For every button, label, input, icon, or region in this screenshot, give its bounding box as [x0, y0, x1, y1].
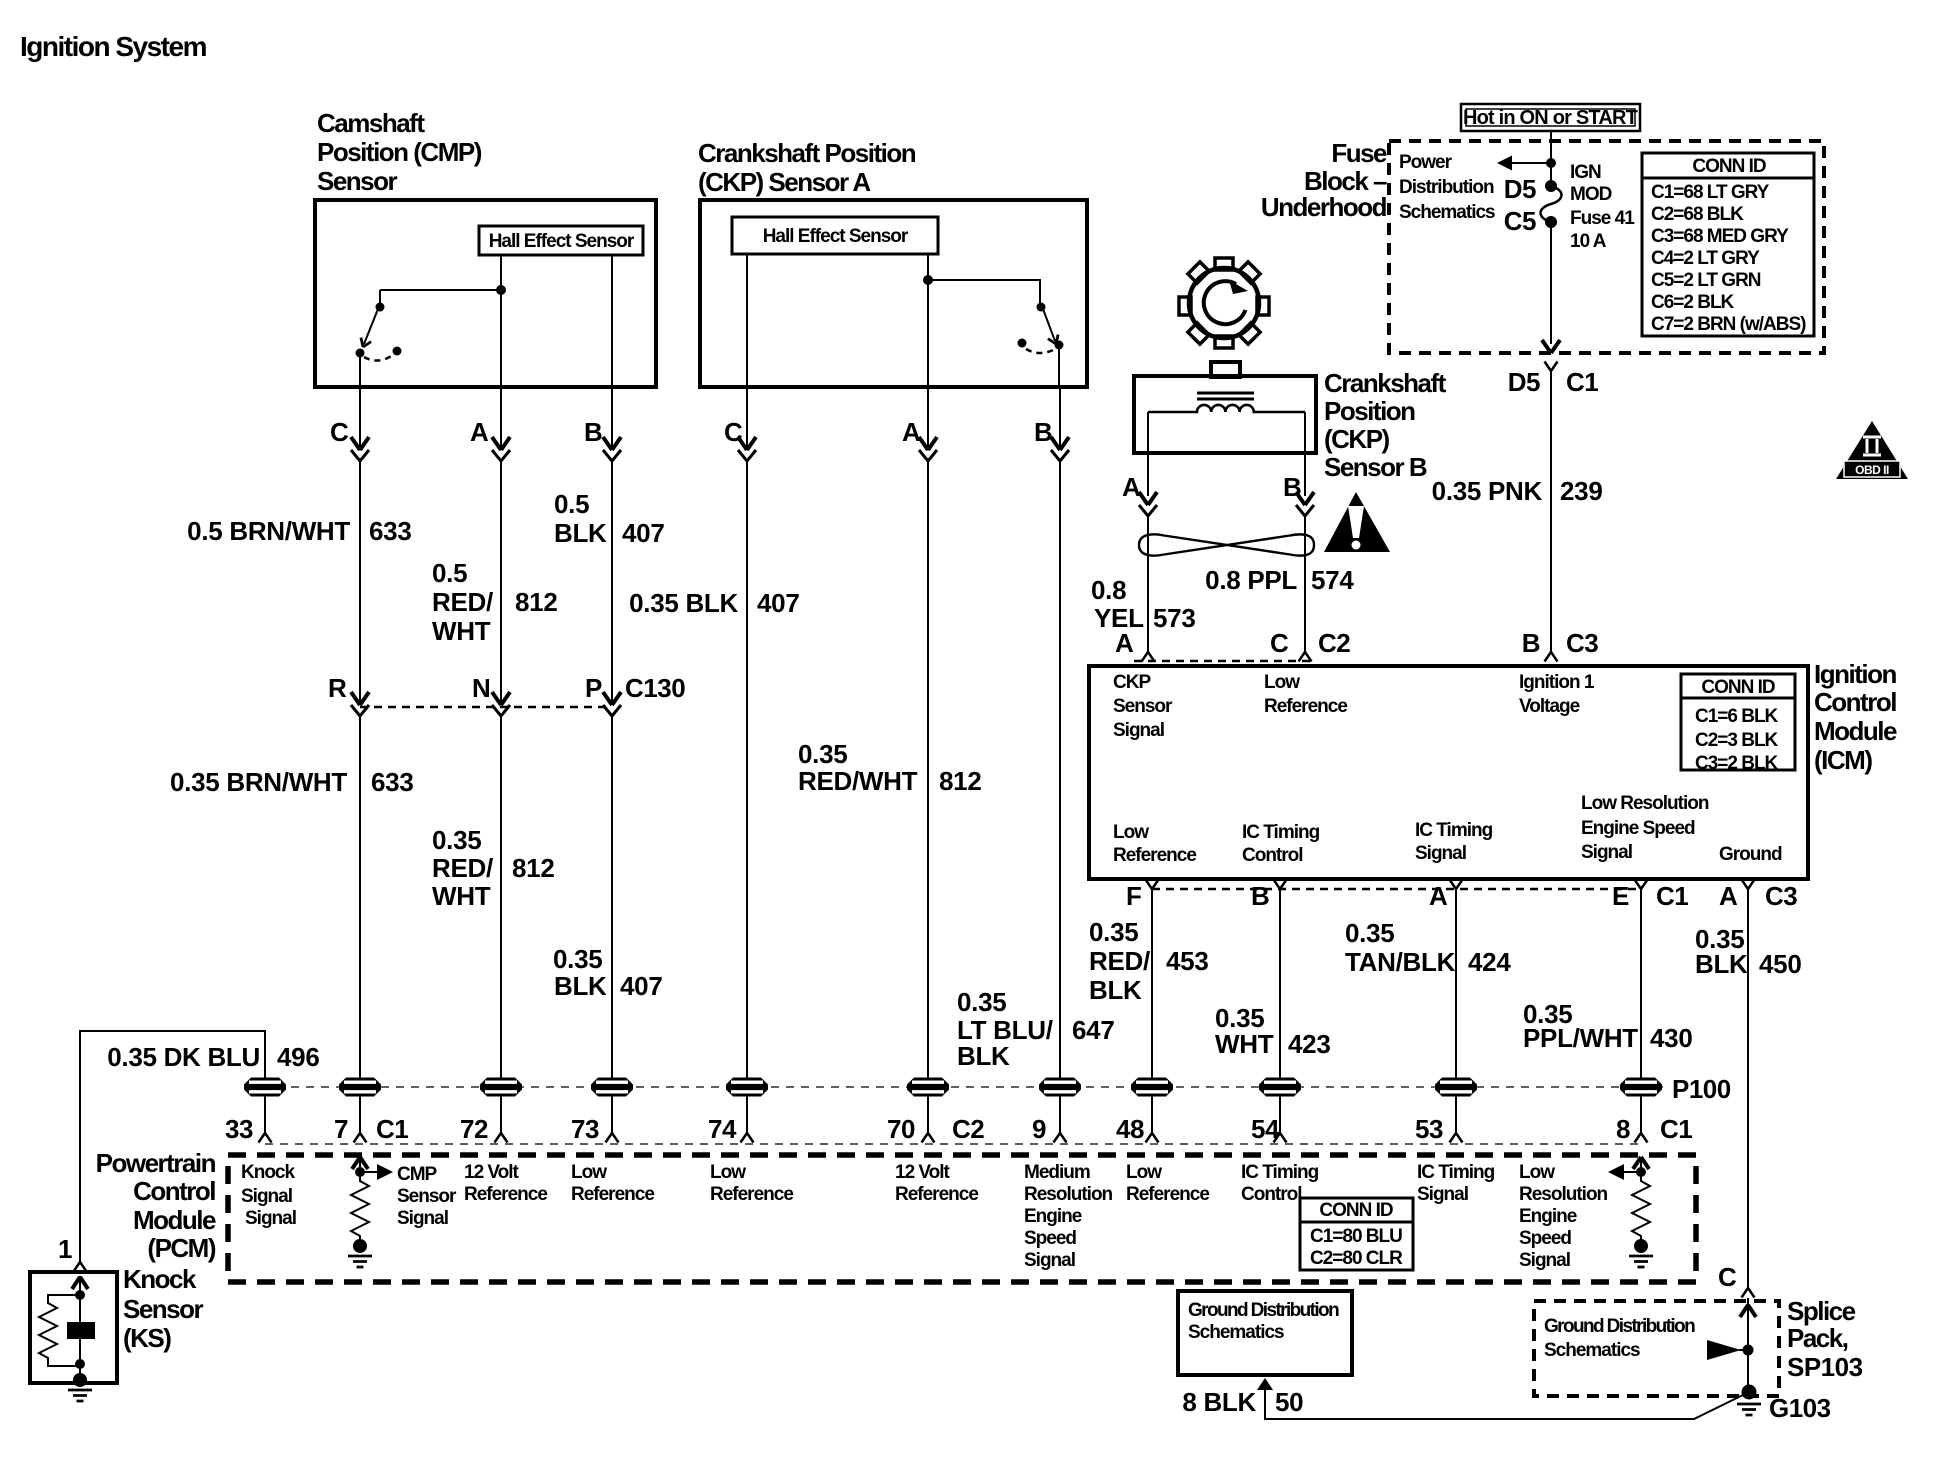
svg-text:Resolution: Resolution [1024, 1184, 1113, 1205]
wire fuse to ICM (239 PNK) [1550, 222, 1552, 344]
svg-text:OBD II: OBD II [1855, 463, 1889, 477]
8 BLK 50 ground lead [1257, 1378, 1273, 1390]
svg-text:Schematics: Schematics [1544, 1340, 1640, 1361]
svg-text:Low: Low [1126, 1162, 1162, 1183]
svg-text:WHT: WHT [432, 616, 491, 646]
P100 grommet pin 73 wire [591, 1078, 633, 1097]
svg-text:Control: Control [1814, 687, 1896, 717]
svg-text:424: 424 [1468, 947, 1511, 977]
svg-text:C130: C130 [625, 673, 685, 703]
svg-text:239: 239 [1560, 476, 1602, 506]
wire CKP-B A (573 YEL) [1147, 412, 1149, 496]
svg-text:54: 54 [1251, 1114, 1280, 1144]
CKP sensor B body [1211, 362, 1240, 377]
svg-text:CONN ID: CONN ID [1319, 1200, 1393, 1221]
svg-text:IC Timing: IC Timing [1241, 1162, 1319, 1183]
wire 496 DK BLU (KS to PCM 33) [74, 1262, 87, 1272]
svg-text:TAN/BLK: TAN/BLK [1345, 947, 1456, 977]
svg-text:Low: Low [1113, 822, 1149, 843]
svg-text:G103: G103 [1769, 1393, 1831, 1423]
svg-text:0.35 DK BLU: 0.35 DK BLU [107, 1042, 260, 1072]
CKP A hall effect sensor box [732, 217, 938, 254]
svg-text:Low: Low [571, 1162, 607, 1183]
svg-text:C3: C3 [1566, 628, 1598, 658]
wire CMP A inside box [500, 255, 502, 387]
svg-text:Camshaft: Camshaft [317, 108, 425, 138]
svg-text:B: B [1522, 628, 1540, 658]
CMP hall effect sensor box [479, 226, 643, 255]
svg-text:Signal: Signal [241, 1186, 292, 1207]
svg-text:D5: D5 [1504, 174, 1536, 204]
P100 grommet pin 74 wire [726, 1078, 768, 1097]
svg-text:Ground Distribution: Ground Distribution [1544, 1316, 1695, 1337]
CMP switch [380, 289, 501, 291]
svg-text:RED/: RED/ [432, 853, 493, 883]
svg-text:Engine: Engine [1519, 1206, 1577, 1227]
svg-text:0.35: 0.35 [1345, 918, 1394, 948]
svg-text:B: B [584, 417, 602, 447]
svg-text:E: E [1612, 881, 1629, 911]
svg-text:Hot in ON or START: Hot in ON or START [1463, 107, 1638, 129]
svg-text:CONN ID: CONN ID [1701, 677, 1775, 698]
svg-text:0.5 BRN/WHT: 0.5 BRN/WHT [187, 516, 350, 546]
svg-text:Distribution: Distribution [1399, 177, 1494, 198]
svg-text:Ignition: Ignition [1814, 659, 1896, 689]
svg-text:C: C [1718, 1262, 1737, 1292]
svg-text:Sensor: Sensor [317, 166, 398, 196]
P100 grommet pin 8 wire [1620, 1078, 1662, 1097]
svg-text:Ground Distribution: Ground Distribution [1188, 1300, 1339, 1321]
svg-text:BLK: BLK [957, 1041, 1010, 1071]
svg-text:CONN ID: CONN ID [1692, 156, 1766, 177]
ground distribution schematics box (bottom middle) [1178, 1291, 1352, 1375]
svg-text:8 BLK: 8 BLK [1182, 1387, 1256, 1417]
svg-text:BLK: BLK [554, 971, 607, 1001]
KS internal wire and arrow [79, 1276, 81, 1295]
fuse block underhood dashed box [1389, 141, 1824, 353]
OBD II symbol [1836, 421, 1908, 479]
svg-text:0.5: 0.5 [554, 489, 589, 519]
svg-text:A: A [902, 417, 921, 447]
svg-text:430: 430 [1650, 1023, 1692, 1053]
svg-text:B: B [1251, 881, 1269, 911]
svg-text:IC Timing: IC Timing [1417, 1162, 1495, 1183]
svg-text:50: 50 [1275, 1387, 1303, 1417]
connector P100 dashed line [246, 1086, 1663, 1088]
svg-text:Module: Module [133, 1205, 216, 1235]
svg-text:1: 1 [58, 1234, 72, 1264]
svg-text:0.35: 0.35 [1089, 917, 1138, 947]
svg-text:PPL/WHT: PPL/WHT [1523, 1023, 1638, 1053]
svg-text:407: 407 [620, 971, 662, 1001]
ICM box [1089, 666, 1808, 879]
svg-text:Sensor B: Sensor B [1324, 452, 1427, 482]
svg-text:0.35 BRN/WHT: 0.35 BRN/WHT [170, 767, 347, 797]
svg-text:Crankshaft Position: Crankshaft Position [698, 138, 916, 168]
svg-text:Signal: Signal [1024, 1250, 1075, 1271]
svg-text:IGN: IGN [1570, 162, 1601, 183]
svg-text:453: 453 [1166, 946, 1208, 976]
svg-text:Control: Control [133, 1176, 215, 1206]
svg-text:WHT: WHT [432, 881, 491, 911]
low res engine speed resistor inside PCM [1640, 1157, 1642, 1172]
svg-text:N: N [472, 673, 490, 703]
svg-text:Medium: Medium [1024, 1162, 1090, 1183]
svg-text:C5=2 LT GRN: C5=2 LT GRN [1651, 270, 1761, 291]
svg-text:B: B [1283, 472, 1301, 502]
wire 812 RED/WHT (CMP A to PCM 72) [500, 387, 502, 450]
ground G103 [1742, 1385, 1757, 1400]
svg-text:Signal: Signal [1417, 1184, 1468, 1205]
svg-text:(CKP) Sensor A: (CKP) Sensor A [698, 167, 871, 197]
svg-text:0.35 PNK: 0.35 PNK [1432, 476, 1543, 506]
svg-text:D5: D5 [1508, 367, 1540, 397]
svg-text:Position (CMP): Position (CMP) [317, 137, 482, 167]
svg-text:WHT: WHT [1215, 1029, 1274, 1059]
svg-text:MOD: MOD [1570, 184, 1612, 205]
svg-text:647: 647 [1072, 1015, 1114, 1045]
svg-text:Sensor: Sensor [1113, 696, 1173, 717]
svg-text:Signal: Signal [1415, 843, 1466, 864]
svg-text:Reference: Reference [571, 1184, 654, 1205]
P100 grommet pin 70 wire [907, 1078, 949, 1097]
svg-text:9: 9 [1032, 1114, 1046, 1144]
svg-text:SP103: SP103 [1787, 1352, 1863, 1382]
svg-text:C6=2 BLK: C6=2 BLK [1651, 292, 1735, 313]
svg-text:C2: C2 [1318, 628, 1350, 658]
svg-text:(PCM): (PCM) [147, 1233, 215, 1263]
svg-text:C3: C3 [1765, 881, 1797, 911]
pickup coil core [1197, 393, 1254, 399]
svg-text:12 Volt: 12 Volt [464, 1162, 520, 1183]
svg-text:407: 407 [622, 518, 664, 548]
PCM dashed box [228, 1155, 1696, 1282]
wire 424 TAN/BLK (ICM A to PCM 53) [1450, 880, 1463, 890]
svg-text:812: 812 [939, 766, 981, 796]
svg-text:C5: C5 [1504, 206, 1536, 236]
splice arrow [1740, 1305, 1756, 1317]
svg-text:48: 48 [1116, 1114, 1144, 1144]
svg-text:496: 496 [277, 1042, 319, 1072]
svg-text:Resolution: Resolution [1519, 1184, 1608, 1205]
svg-text:0.8 PPL: 0.8 PPL [1205, 565, 1297, 595]
svg-text:C: C [1270, 628, 1289, 658]
svg-text:Signal: Signal [1519, 1250, 1570, 1271]
svg-text:(CKP): (CKP) [1324, 424, 1390, 454]
svg-text:Pack,: Pack, [1787, 1323, 1848, 1353]
svg-text:633: 633 [369, 516, 411, 546]
connector C130 dashed line [360, 706, 612, 709]
svg-text:Low: Low [1264, 672, 1300, 693]
junction to power distribution arrow [1546, 158, 1556, 168]
svg-text:Reference: Reference [710, 1184, 793, 1205]
svg-text:A: A [1719, 881, 1738, 911]
svg-text:Sensor: Sensor [123, 1294, 204, 1324]
svg-text:CMP: CMP [397, 1164, 438, 1185]
svg-text:Engine: Engine [1024, 1206, 1082, 1227]
wire from hot box [1550, 131, 1552, 186]
P100 grommet pin 7 wire [339, 1078, 381, 1097]
svg-text:8: 8 [1616, 1114, 1630, 1144]
svg-text:74: 74 [708, 1114, 737, 1144]
svg-text:BLK: BLK [1089, 975, 1142, 1005]
wire 423 WHT (ICM B to PCM 54) [1274, 880, 1287, 890]
svg-text:Powertrain: Powertrain [96, 1148, 216, 1178]
svg-text:Signal: Signal [245, 1208, 296, 1229]
svg-text:Signal: Signal [1113, 720, 1164, 741]
svg-text:423: 423 [1288, 1029, 1330, 1059]
knock sensor box [30, 1272, 117, 1383]
P100 grommet pin 53 wire [1435, 1078, 1477, 1097]
svg-text:0.35: 0.35 [957, 987, 1006, 1017]
svg-text:Underhood: Underhood [1261, 192, 1387, 222]
svg-text:A: A [1122, 472, 1141, 502]
wire 407 BLK (CMP B to PCM 73) [611, 387, 613, 450]
svg-text:C2: C2 [952, 1114, 984, 1144]
svg-text:Ignition System: Ignition System [20, 31, 207, 62]
conn id table fuse block [1642, 153, 1814, 336]
svg-text:Power: Power [1399, 152, 1453, 173]
svg-text:C3=68 MED GRY: C3=68 MED GRY [1651, 226, 1789, 247]
PCM top connector dashed line [265, 1143, 1641, 1145]
P100 grommet pin 33 wire [244, 1078, 286, 1097]
wire 430 PPL/WHT (ICM E to PCM 8) [1635, 880, 1648, 890]
CKP sensor A box [700, 200, 1087, 387]
svg-text:C1=6 BLK: C1=6 BLK [1695, 706, 1779, 727]
KS resistor [39, 1295, 80, 1366]
svg-text:Low: Low [710, 1162, 746, 1183]
svg-text:Knock: Knock [241, 1162, 296, 1183]
svg-text:574: 574 [1311, 565, 1354, 595]
svg-text:53: 53 [1415, 1114, 1443, 1144]
wire 450 BLK (ICM ground to splice pack) [1742, 880, 1755, 890]
svg-text:0.5: 0.5 [432, 558, 467, 588]
svg-text:407: 407 [757, 588, 799, 618]
svg-text:Ground: Ground [1719, 844, 1782, 865]
svg-text:C1: C1 [1656, 881, 1688, 911]
wire CKP-A A inside box [927, 254, 929, 387]
svg-text:812: 812 [512, 853, 554, 883]
wire 453 RED/BLK (ICM F to PCM 48) [1146, 880, 1159, 890]
svg-text:Fuse 41: Fuse 41 [1570, 208, 1635, 229]
svg-text:(ICM): (ICM) [1814, 745, 1872, 775]
svg-text:BLK: BLK [554, 518, 607, 548]
CMP signal resistor inside PCM [359, 1157, 361, 1172]
svg-text:C4=2 LT GRY: C4=2 LT GRY [1651, 248, 1760, 269]
svg-text:A: A [1115, 628, 1134, 658]
svg-text:Splice: Splice [1787, 1296, 1856, 1326]
svg-text:C3=2 BLK: C3=2 BLK [1695, 753, 1779, 774]
svg-text:A: A [1429, 881, 1448, 911]
P100 grommet pin 54 wire [1259, 1078, 1301, 1097]
P100 grommet pin 9 wire [1039, 1078, 1081, 1097]
svg-text:0.35 BLK: 0.35 BLK [629, 588, 738, 618]
wire 812 RED/WHT (CKP-A A to PCM 70) [927, 387, 929, 450]
warning triangle [1324, 492, 1390, 552]
svg-text:IC Timing: IC Timing [1415, 820, 1493, 841]
svg-text:0.35: 0.35 [553, 944, 602, 974]
svg-text:R: R [328, 673, 347, 703]
svg-text:12 Volt: 12 Volt [895, 1162, 951, 1183]
PCM pin forks [259, 1133, 272, 1143]
svg-text:(KS): (KS) [123, 1323, 171, 1353]
svg-text:Low: Low [1519, 1162, 1555, 1183]
wire CMP B inside box [611, 255, 613, 387]
splice pack dashed box [1534, 1301, 1779, 1396]
wire 407 BLK (CKP-A C to PCM 74) [746, 387, 748, 450]
svg-text:Hall Effect Sensor: Hall Effect Sensor [763, 226, 909, 247]
ICM bottom connector dashed line [1152, 888, 1641, 891]
svg-text:73: 73 [571, 1114, 599, 1144]
crankshaft reluctor gear [1179, 258, 1269, 348]
svg-text:0.35: 0.35 [432, 825, 481, 855]
svg-text:Signal: Signal [397, 1208, 448, 1229]
svg-text:450: 450 [1759, 949, 1801, 979]
svg-text:C1: C1 [1660, 1114, 1692, 1144]
svg-text:CKP: CKP [1113, 672, 1151, 693]
svg-text:C2=68 BLK: C2=68 BLK [1651, 204, 1744, 225]
svg-text:Hall Effect Sensor: Hall Effect Sensor [489, 231, 635, 252]
P100 grommet pin 72 wire [480, 1078, 522, 1097]
svg-text:70: 70 [887, 1114, 915, 1144]
svg-text:33: 33 [225, 1114, 253, 1144]
svg-text:C7=2 BRN (w/ABS): C7=2 BRN (w/ABS) [1651, 314, 1806, 335]
svg-text:Sensor: Sensor [397, 1186, 457, 1207]
svg-text:C1=68 LT GRY: C1=68 LT GRY [1651, 182, 1770, 203]
svg-text:C1: C1 [376, 1114, 408, 1144]
svg-text:Engine Speed: Engine Speed [1581, 818, 1695, 839]
CKP-A switch [923, 275, 933, 285]
svg-text:RED/WHT: RED/WHT [798, 766, 918, 796]
P100 grommet pin 48 wire [1131, 1078, 1173, 1097]
svg-text:C2=80 CLR: C2=80 CLR [1310, 1248, 1403, 1269]
svg-text:Position: Position [1324, 396, 1415, 426]
svg-text:0.35: 0.35 [798, 739, 847, 769]
svg-text:Reference: Reference [1113, 845, 1196, 866]
svg-text:Module: Module [1814, 716, 1897, 746]
wire CKP-A C inside box [746, 254, 748, 387]
svg-text:7: 7 [334, 1114, 348, 1144]
svg-text:Reference: Reference [1264, 696, 1347, 717]
svg-text:P100: P100 [1672, 1074, 1731, 1104]
svg-text:Reference: Reference [895, 1184, 978, 1205]
pickup coil [1148, 405, 1305, 412]
svg-text:C1: C1 [1566, 367, 1598, 397]
svg-text:BLK: BLK [1695, 949, 1748, 979]
svg-text:Ignition 1: Ignition 1 [1519, 672, 1595, 693]
svg-text:C: C [330, 417, 349, 447]
svg-text:A: A [470, 417, 489, 447]
fuse 41 IGN MOD [1545, 180, 1557, 192]
svg-text:Control: Control [1241, 1184, 1302, 1205]
connector C2 dashed line [1134, 660, 1316, 663]
svg-text:IC Timing: IC Timing [1242, 822, 1320, 843]
svg-text:0.8: 0.8 [1091, 575, 1126, 605]
svg-text:812: 812 [515, 587, 557, 617]
svg-text:Crankshaft: Crankshaft [1324, 368, 1447, 398]
svg-text:RED/: RED/ [432, 587, 493, 617]
svg-text:C1=80 BLU: C1=80 BLU [1310, 1226, 1402, 1247]
PCM conn id table [1300, 1198, 1413, 1270]
svg-text:Reference: Reference [464, 1184, 547, 1205]
svg-text:72: 72 [460, 1114, 488, 1144]
CMP sensor box [315, 200, 656, 387]
svg-text:633: 633 [371, 767, 413, 797]
svg-text:Knock: Knock [123, 1264, 197, 1294]
ICM conn id table [1681, 674, 1795, 770]
svg-text:Speed: Speed [1024, 1228, 1076, 1249]
svg-text:P: P [585, 673, 602, 703]
svg-text:573: 573 [1153, 603, 1195, 633]
svg-text:F: F [1126, 881, 1141, 911]
svg-text:Fuse: Fuse [1331, 138, 1387, 168]
wire 647 LT BLU/BLK (CKP-A B to PCM 9) [1058, 345, 1060, 387]
svg-text:Reference: Reference [1126, 1184, 1209, 1205]
svg-text:Control: Control [1242, 845, 1303, 866]
svg-text:RED/: RED/ [1089, 946, 1150, 976]
svg-text:B: B [1034, 417, 1052, 447]
svg-text:Schematics: Schematics [1188, 1322, 1284, 1343]
wire 633 BRN/WHT (CMP C to PCM 7) [359, 353, 361, 450]
svg-text:Schematics: Schematics [1399, 202, 1495, 223]
svg-text:Signal: Signal [1581, 842, 1632, 863]
svg-text:Low Resolution: Low Resolution [1581, 793, 1709, 814]
hot in ON or START box [1461, 104, 1640, 131]
svg-text:Speed: Speed [1519, 1228, 1571, 1249]
svg-text:C2=3 BLK: C2=3 BLK [1695, 730, 1779, 751]
wire CKP-B B (574 PPL) [1304, 412, 1306, 496]
twisted pair symbol [1139, 534, 1314, 555]
KS piezo capacitor [79, 1295, 81, 1322]
svg-text:Voltage: Voltage [1519, 696, 1580, 717]
KS case ground [73, 1373, 87, 1387]
svg-text:10 A: 10 A [1570, 231, 1607, 252]
